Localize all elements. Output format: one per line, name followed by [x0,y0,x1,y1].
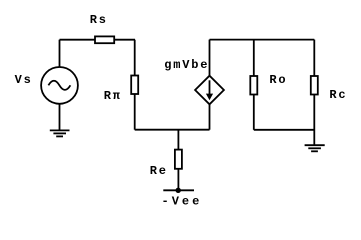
wire Vs top vertical [59,40,61,67]
svg-text:-Vee: -Vee [162,195,203,209]
svg-text:Ro: Ro [269,73,287,87]
wire Ro bottom vertical [253,95,255,130]
op-amp gmVbe dependent current source diamond [195,76,224,105]
voltage source Vs circle [41,67,78,104]
gmVbe arrow [206,80,213,100]
wire diamond top vertical [209,40,211,76]
wire bottom-right horizontal [254,129,314,131]
wire Ro top vertical [253,40,255,76]
Vs sine wave [48,81,70,90]
svg-text:Re: Re [150,164,168,178]
wire Rc top vertical [313,40,315,76]
svg-text:Rs: Rs [90,13,108,27]
svg-text:Vs: Vs [15,73,33,87]
ground right [305,145,325,151]
wire top-left horizontal (Vs to Rpi node B) [60,39,136,41]
wire Re top vertical [177,130,179,150]
resistor Re [175,150,182,169]
wire top-right collector horizontal [210,39,315,41]
svg-text:Rπ: Rπ [104,89,122,103]
ground left [50,130,70,136]
wire Rpi bottom vertical [134,94,136,130]
wire Rpi top vertical [134,40,136,76]
resistor Rpi [131,76,138,95]
node -Vee rail [163,189,194,191]
resistor Rc [311,76,318,95]
wire diamond bottom vertical [209,104,211,129]
wire Rc bottom vertical [313,95,315,146]
wire Vs bottom vertical [59,104,61,131]
node junction dot [176,188,181,193]
wire Re bottom vertical [177,169,179,191]
svg-text:Rc: Rc [329,88,347,102]
svg-text:gmVbe: gmVbe [164,58,209,72]
resistor Rs [95,36,114,43]
wire bottom emitter node horizontal [135,129,210,131]
resistor Ro [250,76,257,95]
